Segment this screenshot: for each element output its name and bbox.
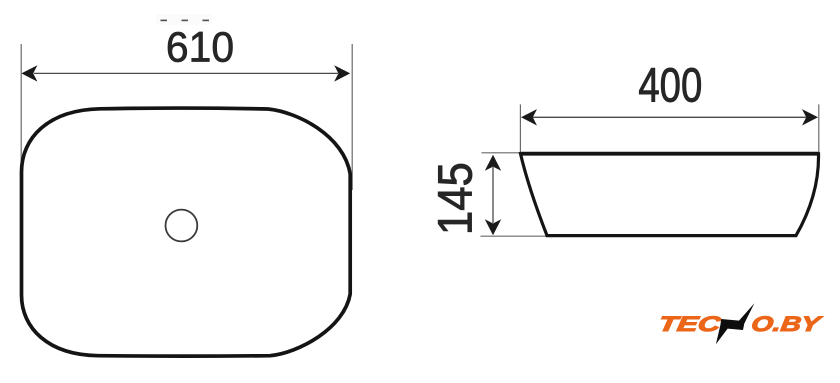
drain circle <box>166 210 198 242</box>
dimension line 400 <box>533 116 806 118</box>
side view top rim (thicker stroke) <box>521 152 819 156</box>
tick top (145) <box>482 152 522 154</box>
svg-text:145: 145 <box>428 162 482 235</box>
arrowhead left (610) <box>21 65 37 81</box>
dimension line 610 <box>34 72 338 74</box>
extension line left (610) <box>20 44 22 192</box>
arrowhead right (610) <box>334 65 350 81</box>
svg-text:TEC: TEC <box>657 312 723 336</box>
svg-text:610: 610 <box>166 23 234 71</box>
arrowhead up (145) <box>485 155 501 171</box>
extension line right (610) <box>351 44 353 190</box>
basin side view outline <box>521 154 819 236</box>
arrowhead right (400) <box>802 109 818 125</box>
svg-text:400: 400 <box>638 58 702 112</box>
basin top view outline <box>22 108 351 356</box>
arrowhead left (400) <box>521 109 537 125</box>
dimension line 145 <box>492 167 494 223</box>
svg-text:O.BY: O.BY <box>750 313 824 336</box>
arrowhead down (145) <box>485 219 501 235</box>
tick bottom (145) <box>481 235 551 237</box>
extension line left (400) <box>519 104 521 152</box>
logo lightning bolt (N) <box>716 303 755 344</box>
extension line right (400) <box>818 104 820 152</box>
cropped text remnant dashes (top) <box>156 14 212 25</box>
